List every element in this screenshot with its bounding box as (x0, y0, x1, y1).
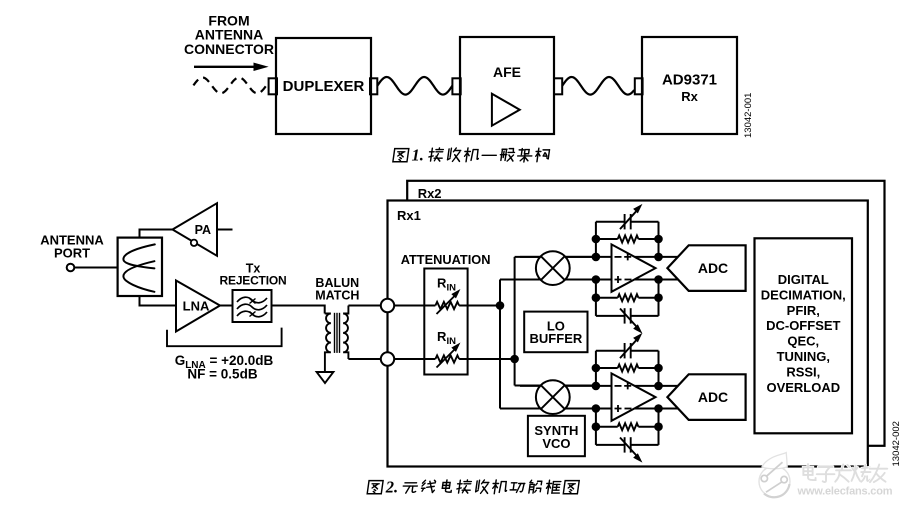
AFE output port stub (554, 78, 562, 94)
svg-text:DUPLEXER: DUPLEXER (283, 78, 365, 95)
variable capacitor C2b (596, 444, 625, 446)
svg-text:ADC: ADC (698, 260, 728, 276)
AD9371 input port stub (635, 78, 643, 94)
mixer M2 (536, 380, 570, 414)
caption figure 2 (无线电接收机功能框图) (367, 481, 383, 494)
attenuation box (424, 269, 467, 375)
wire LNA to Tx rejection filter (220, 305, 233, 307)
wire node N to mixer2 upper input (515, 385, 596, 387)
duplexer output port stub (370, 78, 377, 94)
Rx1 input port P circle (381, 299, 394, 312)
amplifier PA triangle (173, 203, 218, 256)
feedback rail right lower (U1) (658, 280, 660, 316)
duplexer filter response curves (123, 244, 154, 268)
svg-text:DECIMATION,: DECIMATION, (761, 287, 846, 302)
svg-text:NF = 0.5dB: NF = 0.5dB (187, 367, 257, 382)
feedback rail right lower (U2) (658, 409, 660, 445)
svg-text:TUNING,: TUNING, (777, 349, 830, 364)
op-amp U2 input polarity marks (615, 385, 622, 387)
wire Rx input N to RIN (394, 358, 435, 360)
wire RIN top to node (459, 305, 500, 307)
variable capacitor C1b (596, 315, 625, 317)
svg-text:13042-002: 13042-002 (891, 421, 902, 466)
svg-text:PFIR,: PFIR, (787, 303, 820, 318)
svg-text:AFE: AFE (493, 64, 521, 80)
wire wavy AFE to AD9371 (562, 77, 634, 95)
ADC1 block (667, 245, 745, 291)
svg-text:www.elecfans.com: www.elecfans.com (797, 486, 893, 498)
wire node P to mixer2 lower input (500, 408, 596, 410)
wire wavy RF duplexer to AFE (377, 77, 452, 95)
Rx1 input port N circle (381, 352, 394, 365)
feedback resistor R1b (596, 297, 618, 299)
svg-text:ATTENUATION: ATTENUATION (401, 252, 491, 267)
svg-text:13042-001: 13042-001 (743, 93, 754, 138)
amplifier symbol inside AFE (492, 94, 520, 126)
svg-text:Rx1: Rx1 (397, 208, 421, 223)
junction dots lower network (U1) (592, 293, 601, 302)
wire mixer2 output / op-amp U2 input line upper (520, 385, 700, 387)
junction dots lower network (U2) (592, 422, 601, 431)
svg-text:PORT: PORT (54, 246, 90, 261)
junction node N (510, 355, 519, 364)
feedback rail right upper (U1) (658, 222, 660, 257)
feedback resistor R1a (596, 238, 618, 240)
block DIGITAL DECIMATION... (755, 238, 853, 433)
op-amp U1 input polarity marks (615, 256, 622, 258)
signal-flow arrow (194, 66, 256, 68)
wire balun secondary top to Rx1 input P (348, 305, 387, 307)
svg-text:LNA: LNA (183, 298, 210, 313)
svg-text:Rx: Rx (681, 89, 698, 104)
wire RIN bottom to node (459, 358, 514, 360)
feedback resistor R2b (596, 426, 618, 428)
block Rx2 (channel 2 outline) (407, 181, 884, 446)
ADC2 block (667, 374, 745, 420)
wire antenna to duplexer filter (74, 267, 117, 269)
svg-text:DIGITAL: DIGITAL (778, 272, 829, 287)
wire duplexer to LNA (140, 296, 177, 306)
ground symbol (317, 372, 334, 383)
duplexer filter F1 box (118, 238, 162, 296)
balun transformer T1 secondary winding (343, 306, 348, 360)
svg-text:RSSI,: RSSI, (786, 364, 820, 379)
feedback rail right upper (U2) (658, 351, 660, 386)
feedback rail left lower (U1) (595, 280, 597, 316)
block AFE U-AFE (460, 37, 554, 134)
wire duplexer to PA (140, 230, 173, 238)
wire PA input stub (217, 229, 233, 231)
feedback rail left upper (U1) (595, 222, 597, 257)
balun transformer T1 primary winding (325, 314, 331, 373)
junction dots upper network (U1) (592, 235, 601, 244)
AFE input port stub (452, 78, 460, 94)
feedback resistor R2a (596, 367, 618, 369)
junction node P (496, 301, 505, 310)
svg-text:1.: 1. (412, 146, 424, 165)
svg-text:PA: PA (195, 223, 211, 237)
svg-text:DC-OFFSET: DC-OFFSET (766, 318, 840, 333)
svg-text:VCO: VCO (542, 436, 570, 451)
svg-text:AD9371: AD9371 (662, 72, 717, 89)
wire Tx rejection to balun (272, 306, 325, 314)
block Rx1 (channel 1 outline) (388, 201, 868, 467)
op-amp U1 (612, 244, 656, 291)
variable resistor RIN bottom (435, 355, 459, 362)
block SYNTH VCO (528, 416, 585, 456)
caption figure 1 (接收机一般架构) (393, 149, 409, 162)
svg-text:QEC,: QEC, (787, 334, 819, 349)
junction dots upper network (U2) (592, 364, 601, 373)
wire balun secondary bottom to Rx1 input N (348, 358, 387, 360)
balun transformer core (334, 313, 336, 353)
PA bias circle on edge (191, 240, 197, 246)
wire node N vertical rail (514, 257, 516, 386)
block LO BUFFER (524, 312, 587, 353)
svg-text:CONNECTOR: CONNECTOR (184, 41, 274, 57)
wire node P to mixer1 lower input (500, 279, 596, 281)
wire mixer2 output / op-amp U2 input line lower (520, 408, 700, 410)
antenna port terminal circle (67, 264, 75, 272)
wire Rx input P to RIN (394, 305, 435, 307)
block DUPLEXER (276, 38, 371, 134)
svg-text:MATCH: MATCH (315, 289, 359, 303)
Tx rejection filter waves (237, 297, 267, 303)
block AD9371 Rx (642, 37, 737, 134)
amplifier LNA triangle (176, 281, 220, 332)
variable resistor RIN top (435, 302, 459, 309)
svg-text:REJECTION: REJECTION (220, 274, 287, 288)
duplexer input port stub (269, 78, 277, 94)
wire node P vertical rail (499, 280, 501, 409)
wire node N to mixer1 upper input (515, 256, 596, 258)
svg-text:OVERLOAD: OVERLOAD (766, 380, 840, 395)
gain bracket under LNA chain (167, 328, 282, 347)
wire mixer1 output / op-amp U1 input line upper (520, 256, 700, 258)
svg-text:BUFFER: BUFFER (530, 331, 583, 346)
svg-text:2.: 2. (385, 478, 398, 497)
svg-text:ADC: ADC (698, 389, 728, 405)
variable capacitor C1a (596, 221, 625, 223)
feedback rail left lower (U2) (595, 409, 597, 445)
op-amp U2 (612, 373, 656, 420)
Tx rejection filter box (233, 290, 272, 322)
dashed RF input sine wave (193, 78, 268, 94)
svg-text:Rx2: Rx2 (418, 186, 442, 201)
variable capacitor C2a (596, 350, 625, 352)
wire mixer1 output / op-amp U1 input line lower (520, 279, 700, 281)
feedback rail left upper (U2) (595, 351, 597, 386)
mixer M1 (536, 251, 570, 285)
watermark elecfans logo and text (759, 466, 790, 497)
